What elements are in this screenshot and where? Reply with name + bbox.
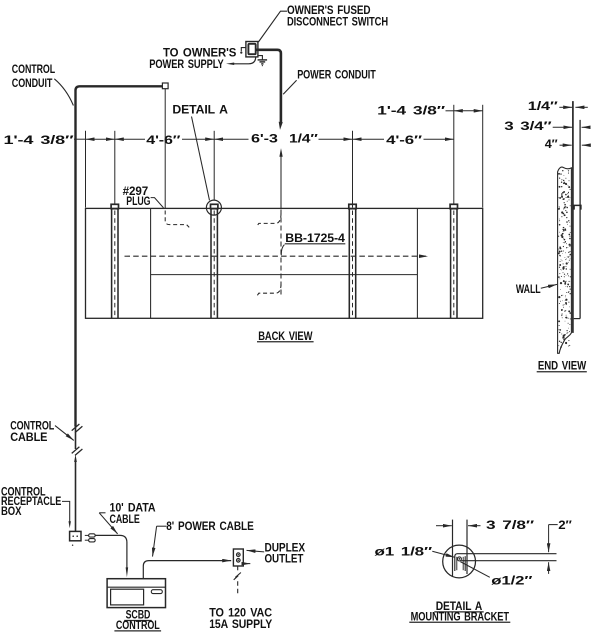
svg-text:DETAIL A: DETAIL A (172, 102, 228, 116)
conduit connector square (162, 83, 168, 89)
svg-text:OUTLET: OUTLET (265, 552, 304, 566)
svg-text:BACK VIEW: BACK VIEW (258, 329, 313, 343)
svg-text:CABLE: CABLE (10, 430, 47, 444)
svg-text:15A SUPPLY: 15A SUPPLY (209, 617, 272, 631)
mounting bracket channel 4 (450, 204, 457, 318)
wall section with break edges (558, 167, 572, 353)
svg-text:2″: 2″ (558, 518, 572, 532)
leader from power cable label (157, 525, 167, 527)
svg-text:CONTROL: CONTROL (12, 62, 55, 76)
svg-text:WALL: WALL (516, 282, 541, 296)
extension line bracket 3 (352, 131, 354, 208)
horizontal centerline (dashed) with arrow (125, 255, 429, 257)
hidden cable hook at control entry (165, 211, 189, 228)
leader from detail A label to circle (192, 117, 210, 201)
mounting bracket channel 3 (349, 204, 356, 318)
ground (258, 56, 263, 60)
cable break symbol lower (72, 447, 80, 454)
svg-text:BB-1725-4: BB-1725-4 (285, 231, 345, 245)
svg-text:8' POWER CABLE: 8' POWER CABLE (166, 519, 254, 533)
mounting hole (457, 557, 461, 561)
leader to control cable with arrow (55, 426, 74, 441)
svg-text:POWER CONDUIT: POWER CONDUIT (297, 67, 376, 81)
lower rail (461, 560, 556, 562)
extension line bracket 4 (453, 105, 455, 204)
control conduit wire (76, 86, 163, 426)
leader from duplex label (247, 550, 265, 552)
svg-text:BOX: BOX (1, 504, 21, 518)
dim 4-6 right (353, 138, 385, 140)
data cable plug upper (85, 534, 89, 536)
mounting bracket channel 2 (211, 204, 218, 318)
svg-text:CONDUIT: CONDUIT (12, 76, 53, 90)
outlet side arrow (243, 563, 250, 565)
console slot (151, 590, 162, 594)
inner divider right (416, 208, 418, 318)
control cable wire thin section (75, 427, 77, 450)
extension line panel right edge (482, 105, 484, 208)
scoreboard back panel outline (86, 208, 483, 318)
leader to switch (258, 11, 287, 42)
end view clamp (574, 205, 581, 209)
dashed supply drop with break (237, 566, 239, 572)
extension line bracket 1 (114, 131, 116, 204)
leader from box label with arrow (62, 501, 70, 521)
inner divider left (150, 208, 152, 318)
leader from plug label (151, 198, 164, 208)
svg-text:CONTROL: CONTROL (116, 618, 160, 632)
switch pigtail lead (241, 48, 246, 52)
svg-text:1'-4 3/8″: 1'-4 3/8″ (4, 133, 75, 147)
bracket side line (579, 120, 581, 319)
svg-text:1/4″: 1/4″ (289, 132, 318, 146)
bracket left wall line (452, 520, 454, 576)
duplex outlet box (233, 549, 243, 566)
control receptacle box (70, 531, 81, 540)
callout circle detail A (443, 545, 476, 578)
extension line panel left edge (85, 131, 87, 208)
svg-text:4'-6″: 4'-6″ (386, 133, 422, 147)
leader from BB label to centerline (281, 245, 284, 256)
extension line bracket 2 (213, 131, 215, 200)
svg-text:4'-6″: 4'-6″ (146, 133, 180, 147)
svg-text:CABLE: CABLE (110, 512, 140, 526)
hidden cable hook lower center (257, 284, 282, 297)
vertical centerline (dashed) inside panel (280, 210, 282, 296)
svg-text:3 3/4″: 3 3/4″ (504, 119, 552, 133)
power conduit wire (257, 50, 281, 122)
svg-text:4″: 4″ (545, 137, 558, 151)
svg-text:ø1 1/8″: ø1 1/8″ (375, 544, 433, 558)
svg-text:DISCONNECT SWITCH: DISCONNECT SWITCH (287, 14, 388, 28)
bracket right wall line (466, 520, 468, 574)
data cable plug lower (85, 539, 89, 541)
8ft power cable wire (143, 561, 231, 579)
wall stipple (558, 170, 571, 348)
console screen (111, 589, 144, 605)
inner horizontal divider (151, 274, 418, 276)
leader to control conduit (54, 79, 73, 106)
hidden cable hook upper center (257, 214, 282, 227)
svg-text:1/4″: 1/4″ (528, 99, 558, 113)
detail A callout circle (206, 200, 221, 215)
centerline from conduit to panel with arrow (280, 156, 282, 208)
svg-text:ø1/2″: ø1/2″ (491, 573, 532, 587)
scoreboard side line (572, 101, 574, 333)
svg-text:6'-3: 6'-3 (251, 132, 278, 146)
line from connector down to panel (164, 89, 166, 208)
svg-text:MOUNTING BRACKET: MOUNTING BRACKET (411, 609, 510, 623)
svg-text:END VIEW: END VIEW (538, 359, 587, 373)
dim 2 inch (549, 524, 558, 526)
leader from data cable label (99, 512, 105, 514)
scbd control console box (107, 579, 165, 608)
dia 1/2 label (460, 562, 490, 578)
channel section and upper rail (455, 554, 557, 571)
svg-text:POWER SUPPLY: POWER SUPPLY (149, 57, 224, 71)
cable break symbol upper (72, 424, 80, 431)
dim 3 7/8 (436, 525, 452, 527)
dim 4-6 left (115, 138, 145, 140)
wire to owners power supply with arrow (231, 57, 256, 64)
disconnect switch S1 (246, 42, 258, 57)
svg-text:1'-4 3/8″: 1'-4 3/8″ (377, 104, 445, 118)
mounting bracket channel 1 (111, 204, 118, 318)
10ft data cable wire (95, 535, 127, 567)
control cable wire with up arrow (75, 461, 77, 531)
dim 6-3 1/4 center (214, 138, 248, 140)
svg-text:3 7/8″: 3 7/8″ (486, 518, 534, 532)
svg-text:PLUG: PLUG (126, 194, 150, 208)
